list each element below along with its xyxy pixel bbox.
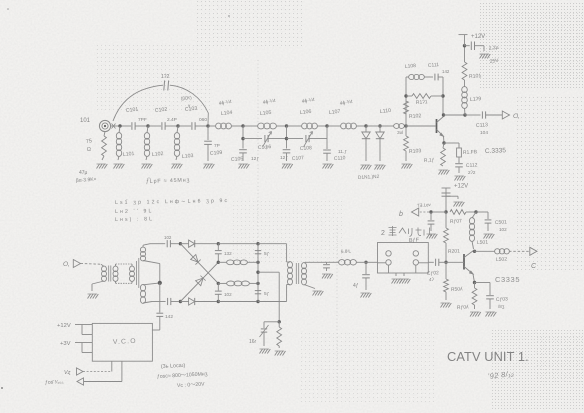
svg-text:TƎ.Lev: TƎ.Lev	[417, 202, 432, 208]
wire LO feed vertical	[159, 283, 161, 313]
resistor 75ohm input termination	[104, 132, 105, 136]
svg-text:O,: O,	[63, 261, 70, 268]
transformer T2 primary winding	[130, 266, 135, 281]
capacitor C113 output coupling	[481, 111, 483, 118]
transformer T2 secondary lower half	[140, 284, 145, 303]
wire lower bridge 2	[287, 138, 304, 140]
svg-text:12ƒ: 12ƒ	[280, 155, 288, 161]
capacitor 142 LO coupling	[156, 312, 163, 314]
transformer T2 secondary upper half	[140, 247, 145, 261]
paper dither patch top-center	[195, 0, 305, 48]
paper dither patch center-left	[95, 42, 210, 110]
capacitor 2.2u bypass	[465, 45, 470, 47]
diode D2 mixer bottom	[180, 301, 188, 303]
center tap wires	[143, 261, 160, 264]
node feedback left mid	[404, 94, 407, 97]
svg-text:R103: R103	[409, 148, 422, 155]
svg-text:O,: O,	[513, 113, 520, 120]
node feedback right mid	[441, 94, 444, 97]
svg-text:L105: L105	[260, 110, 272, 117]
connector input O arrow	[73, 260, 80, 268]
capacitor C111 feedback	[434, 74, 436, 81]
node right rail upper tap	[256, 261, 259, 264]
svg-text:7PF: 7PF	[138, 117, 147, 123]
capacitor C110 shunt 11P	[323, 149, 331, 151]
wire to TP connector	[433, 211, 446, 213]
node mixer out junction	[364, 261, 367, 264]
diode D102 shunt	[379, 126, 381, 132]
capacitor 102 middle lower	[217, 283, 219, 290]
svg-text:C1ф6: C1ф6	[258, 144, 272, 151]
capacitor 5P upper	[255, 250, 261, 252]
svg-text:Rƒ0ʎ: Rƒ0ʎ	[457, 304, 469, 311]
ground of C112	[455, 176, 466, 181]
wire node6 down	[286, 126, 288, 149]
svg-text:L502: L502	[496, 256, 508, 263]
node mixer top-mid	[217, 242, 220, 245]
svg-text:3υl: 3υl	[397, 130, 403, 136]
trimmer capacitor 16L branch	[263, 322, 265, 328]
node8 junction	[364, 124, 367, 127]
svg-text:C109: C109	[210, 150, 223, 157]
capacitor C103	[191, 122, 193, 130]
capacitor 5P lower	[255, 290, 261, 292]
node mixer bottom-mid	[217, 300, 220, 303]
transformer T1 secondary winding	[113, 266, 118, 281]
svg-text:R1ʔ1: R1ʔ1	[416, 99, 428, 106]
svg-text:C110: C110	[334, 155, 346, 162]
diode D101 shunt	[365, 126, 367, 132]
svg-text:Cƒ03: Cƒ03	[496, 296, 508, 303]
BPF input tap wire	[378, 262, 386, 264]
inductor L103	[176, 124, 179, 127]
lower bridge junction node5	[241, 137, 244, 140]
svg-text:12ƒ: 12ƒ	[251, 156, 259, 162]
ground of TP trimmer	[427, 234, 438, 239]
node emitter junction stage2	[473, 281, 476, 284]
wire +3V to VCO	[75, 342, 82, 344]
feedthrough capacitor stage2	[442, 192, 451, 194]
paper dither patch bottom-center	[300, 330, 435, 402]
helical resonator 2	[413, 251, 418, 256]
node stage2 supply junction	[444, 210, 447, 213]
ground of that cap	[322, 274, 333, 279]
node6 junction	[285, 124, 288, 127]
node middle lower	[217, 282, 220, 285]
node right rail lower tap	[256, 282, 259, 285]
node emitter junction	[442, 141, 445, 144]
wire +12V stage2 stub	[442, 187, 451, 189]
x mark on input wire	[112, 124, 116, 129]
trimmer capacitor C108	[305, 135, 307, 142]
inductor L110 series bead	[380, 125, 394, 127]
wire bottom rail to right	[218, 301, 256, 303]
svg-text:16ɾ: 16ɾ	[249, 339, 257, 345]
svg-text:b: b	[399, 211, 403, 218]
resistor R207 supply to collector	[450, 210, 466, 215]
resistor R111 feedback parallel	[406, 95, 412, 97]
ground of C501	[484, 234, 495, 239]
svg-text:4ʔ: 4ʔ	[429, 277, 435, 282]
svg-text:(3ь Lосaɹ): (3ь Lосaɹ)	[161, 363, 186, 370]
svg-text:Cƒ02: Cƒ02	[427, 270, 440, 277]
svg-text:060: 060	[199, 117, 207, 123]
ground of L103	[172, 164, 183, 169]
capacitor C501 bypass	[476, 211, 488, 213]
svg-text:V.C.O: V.C.O	[113, 338, 137, 346]
wire VL to VCO	[83, 371, 112, 373]
inductor L105	[243, 125, 258, 127]
capacitor 1P2 on arc	[163, 81, 166, 91]
transformer T1 core	[108, 266, 110, 282]
svg-text:2ʔ2: 2ʔ2	[468, 170, 476, 175]
svg-text:C.3335: C.3335	[485, 147, 507, 155]
svg-text:75: 75	[86, 138, 93, 145]
wire LO to VCO	[152, 329, 159, 331]
node9 junction	[378, 124, 381, 127]
svg-text:+12V: +12V	[471, 34, 485, 40]
wire +12V stub	[464, 35, 466, 46]
node divider junction	[278, 320, 281, 323]
svg-text:L104: L104	[221, 110, 233, 117]
ground of T1 primary	[88, 294, 99, 299]
diode D1 mixer top	[180, 243, 188, 245]
inductor L102	[146, 124, 149, 127]
capacitor C503 emitter bypass	[475, 282, 491, 284]
ground of 75ohm resistor	[97, 164, 108, 169]
svg-text:102: 102	[499, 227, 507, 232]
inductor mixer IF upper	[218, 261, 227, 263]
svg-text:5ƒ: 5ƒ	[264, 291, 270, 297]
wire input to T1	[81, 263, 102, 266]
inductor L101	[118, 124, 121, 127]
ground of C107	[282, 164, 293, 169]
ground of D102	[375, 165, 386, 170]
wire to BPF	[366, 261, 378, 263]
node5 junction	[241, 124, 244, 127]
svg-text:Vʐ: Vʐ	[64, 370, 71, 376]
resistor R104 emitter	[443, 143, 444, 148]
wire collector to output cap	[444, 114, 466, 116]
svg-text:R101: R101	[469, 73, 482, 80]
IF transformer T3 secondary winding	[302, 263, 307, 285]
node TP junction	[429, 210, 432, 213]
paper dither patch top-right	[480, 2, 584, 90]
ground of R502	[441, 303, 452, 308]
ground of divider resistor	[275, 351, 286, 356]
svg-text:R,1ƒ: R,1ƒ	[424, 157, 435, 164]
trimmer capacitor C106	[264, 135, 266, 142]
IF transformer T3 primary winding	[286, 244, 288, 262]
svg-text:2.4P: 2.4P	[167, 117, 177, 123]
ground of R503	[470, 312, 481, 317]
inductor L107	[327, 125, 341, 127]
svg-text:D1N1,)N2: D1N1,)N2	[358, 174, 380, 181]
transistor Q501 C3335	[463, 254, 465, 270]
svg-text:47μ: 47μ	[79, 170, 88, 176]
inductor L104	[216, 123, 232, 129]
capacitor C107 shunt 12P	[283, 149, 291, 151]
wire feedback right vertical	[442, 77, 444, 114]
inductor 6.8t series	[356, 261, 366, 263]
output arrow O	[502, 111, 509, 119]
wire top rail to right	[218, 243, 256, 245]
svg-text:L108: L108	[405, 63, 417, 70]
wire node7 down	[326, 126, 328, 149]
ground of C105	[239, 164, 250, 169]
svg-text:L1ʔ9: L1ʔ9	[470, 96, 482, 103]
ground of L102	[142, 164, 153, 169]
paper dither patch bottom-right	[490, 330, 584, 410]
resistor R201 base bias upper	[445, 212, 447, 228]
wire lower bridge 1	[243, 138, 262, 140]
svg-text:+12V: +12V	[454, 184, 468, 190]
BPF output tap wire	[419, 262, 429, 264]
ground of shunt cap node7	[323, 164, 334, 169]
resistor R502 base to ground	[445, 262, 447, 279]
svg-text:R1.FB: R1.FB	[463, 149, 478, 156]
svg-text:104: 104	[480, 130, 488, 136]
svg-text:L501: L501	[477, 239, 489, 246]
svg-text:L110: L110	[380, 108, 392, 115]
capacitor C109 shunt 7P	[207, 126, 209, 140]
connector VL arrow	[77, 368, 84, 375]
capacitor C105 shunt 12P	[239, 149, 247, 151]
resistor R102 upper bias	[404, 101, 409, 114]
svg-text:CATV UNIT 1.: CATV UNIT 1.	[447, 349, 529, 364]
svg-text:6.8ʴL: 6.8ʴL	[341, 248, 352, 254]
svg-text:L106: L106	[300, 109, 312, 116]
diode D4 mixer diagonal lower	[180, 262, 218, 301]
svg-text:L107: L107	[329, 109, 341, 116]
svg-text:BƒF: BƒF	[409, 237, 420, 244]
inductor L502 output	[495, 249, 510, 254]
node base junction stage2	[444, 261, 447, 264]
wire +12V to VCO	[75, 324, 82, 326]
wire to output C	[509, 250, 530, 252]
stray pencil speck 2	[228, 15, 230, 17]
node collector L109 tap	[463, 113, 466, 116]
capacitor mixer top coupling	[166, 240, 168, 247]
ground of T3 secondary	[313, 291, 324, 296]
svg-text:C108: C108	[300, 145, 313, 152]
ferrite bead R1.FB	[458, 143, 460, 148]
node7 junction	[325, 124, 328, 127]
svg-text:R50ʎ: R50ʎ	[451, 286, 463, 293]
wire fosc to VCO	[84, 381, 122, 383]
svg-text:L101: L101	[123, 151, 135, 158]
connector fosc arrow	[77, 378, 84, 385]
wire feedback left vertical	[405, 77, 407, 126]
node LO center tap	[158, 281, 162, 285]
svg-text:C105: C105	[231, 156, 244, 163]
node mixer top-right	[256, 242, 259, 245]
node supply junction	[463, 44, 466, 47]
svg-text:5ƒ: 5ƒ	[264, 251, 270, 257]
node right rail center	[256, 271, 259, 274]
wire node2 to C102	[148, 125, 161, 127]
inductor L108 feedback	[406, 76, 409, 78]
wire emitter to FB	[444, 142, 459, 144]
stray pencil speck 1	[7, 8, 9, 10]
IF transformer core	[295, 263, 297, 284]
svg-text:1ʔ2: 1ʔ2	[161, 74, 169, 80]
wire to trimmer	[264, 321, 279, 323]
wire center tap to divider	[258, 271, 279, 273]
svg-text:C112: C112	[466, 162, 478, 169]
capacitor C112 emitter bypass	[455, 163, 463, 165]
ground of R104	[439, 170, 450, 175]
inductor L501 collector load	[472, 212, 476, 218]
ground of D101	[361, 165, 372, 170]
svg-text:L102: L102	[152, 151, 164, 158]
node mixer bottom-right	[256, 300, 259, 303]
wire to bypass ground	[446, 195, 458, 197]
resistor R103 base to ground	[405, 126, 407, 136]
resistor R101 collector supply	[462, 62, 467, 80]
resistor R503 emitter	[472, 288, 477, 305]
svg-text:+12V: +12V	[57, 323, 71, 329]
node collector junction	[442, 113, 445, 116]
ground of C109	[204, 164, 215, 169]
ground of trimmer	[260, 349, 271, 354]
wire node10 to base	[406, 125, 436, 127]
node middle upper	[217, 261, 220, 264]
wire input to node1	[111, 125, 120, 127]
wire mixer right rail	[257, 244, 259, 302]
svg-text:C111: C111	[428, 62, 440, 69]
svg-text:Lн2 ʼʼ 9L: Lн2 ʼʼ 9L	[115, 208, 154, 215]
svg-text:L103: L103	[182, 153, 194, 160]
stray pencil speck 3	[1, 387, 3, 389]
svg-text:102: 102	[164, 235, 172, 240]
svg-text:142: 142	[442, 69, 450, 74]
svg-text:102: 102	[224, 292, 232, 297]
wire collector out	[474, 250, 475, 253]
connector J101 input jack	[99, 120, 110, 131]
bypass arc wire from input node over filter	[113, 85, 163, 121]
ground of bypass cap	[480, 54, 491, 59]
svg-text:4ƒ: 4ƒ	[353, 283, 359, 289]
fold line vertical right	[336, 225, 338, 400]
svg-text:11.ƒ: 11.ƒ	[338, 149, 347, 155]
svg-text:C113: C113	[476, 122, 489, 129]
node collector stage2	[473, 250, 476, 253]
svg-text:C107: C107	[292, 155, 305, 162]
wire mixer top rail	[150, 243, 165, 245]
wire emitter down	[443, 136, 446, 143]
node collector supply junction	[474, 210, 477, 213]
capacitor 4P shunt at BPF input	[365, 262, 367, 274]
capacitor C102	[161, 122, 163, 130]
inductor mixer IF lower	[218, 282, 227, 284]
svg-text:2: 2	[381, 230, 385, 237]
transformer T1 primary winding	[102, 266, 107, 281]
svg-text:C3335: C3335	[495, 275, 520, 284]
node mixer bottom-left	[179, 300, 182, 303]
wire emitter stage2	[473, 274, 475, 283]
svg-text:132: 132	[224, 251, 232, 256]
node mixer top-left	[179, 242, 182, 245]
ground of C503	[486, 312, 497, 317]
ground of L101	[114, 164, 125, 169]
trimmer capacitor at TP	[430, 212, 432, 220]
wire node4 to L104	[208, 125, 216, 127]
capacitor C101	[131, 122, 133, 130]
fold line vertical left	[257, 60, 259, 262]
capacitor 132 middle upper	[217, 244, 219, 250]
wire mixer bottom rail	[152, 301, 166, 303]
svg-text:142: 142	[165, 314, 173, 320]
ground of R103	[402, 164, 413, 169]
ground of stage2 bypass	[454, 202, 465, 207]
svg-text:R102: R102	[409, 113, 422, 120]
helical resonator 1	[386, 251, 391, 256]
svg-text:ƒоѕ̆ ¹∕₂₅₆: ƒоѕ̆ ¹∕₂₅₆	[45, 379, 64, 386]
svg-text:7P: 7P	[214, 143, 220, 149]
node10 junction bias tap	[404, 124, 407, 127]
svg-text:C501: C501	[495, 219, 507, 226]
transformer T2 core	[136, 261, 138, 285]
VCO box	[92, 323, 152, 361]
wire node5 down	[242, 126, 244, 149]
BPF ground stub 1	[395, 273, 397, 276]
connector b arrow	[412, 208, 419, 216]
svg-text:Ω: Ω	[87, 147, 92, 153]
paper dither patch right-side	[515, 95, 584, 270]
inductor L106	[287, 125, 303, 127]
inductor L109 collector load	[464, 108, 467, 115]
output arrow C	[530, 247, 537, 255]
link coupling wires T1 to T2	[116, 263, 134, 265]
svg-text:Rƒ07: Rƒ07	[450, 218, 462, 225]
svg-text:Lнѕ) : 8L: Lнѕ) : 8L	[115, 216, 154, 223]
BPF ground stub 2	[403, 273, 405, 276]
helical BPF box	[378, 243, 429, 274]
paper dither patch mixer area	[230, 198, 345, 263]
svg-text:+3V: +3V	[60, 341, 71, 347]
svg-text:R201: R201	[448, 248, 460, 255]
ground of 4P cap	[361, 293, 372, 298]
node4 junction	[206, 124, 209, 127]
capacitor mixer bottom coupling	[167, 298, 169, 305]
transistor Q101 2SC3335	[436, 119, 438, 133]
svg-text:101: 101	[80, 118, 91, 124]
svg-text:/8ʒ: /8ʒ	[498, 304, 505, 309]
secondary to ground wire	[304, 285, 315, 289]
resistor divider to ground	[277, 327, 282, 346]
wire node3 to C103	[178, 125, 191, 127]
capacitor shunt after transformer	[323, 261, 330, 263]
diode D3 mixer diagonal upper	[180, 244, 218, 284]
capacitor C502 coupling	[428, 261, 434, 263]
